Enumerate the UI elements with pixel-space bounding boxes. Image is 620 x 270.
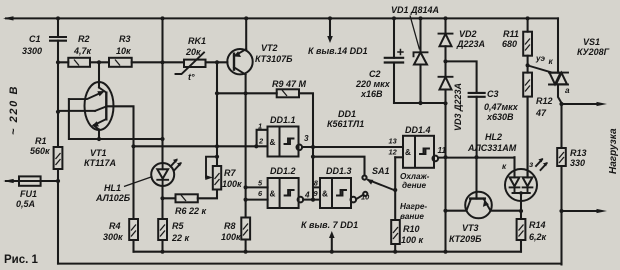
wire: VT1 right lead down to input line y=146.3 <box>106 106 258 219</box>
svg-text:а: а <box>565 86 570 95</box>
wire: C2/VD1/VD3 bottom tie y=103 <box>394 101 448 106</box>
svg-text:0,5А: 0,5А <box>16 199 35 209</box>
svg-text:HL2: HL2 <box>485 132 502 142</box>
wire: load output arrow (anode) <box>559 102 607 106</box>
wire: RK1 tap vertical x=217 <box>215 60 219 166</box>
switch SA1 <box>313 157 394 196</box>
resistor R9 <box>217 79 313 147</box>
svg-text:22 к: 22 к <box>171 233 190 243</box>
resistor R14 <box>517 211 547 252</box>
LED HL2 dual <box>467 97 548 211</box>
thermistor RK1 <box>163 36 228 82</box>
svg-text:уэ: уэ <box>535 54 546 63</box>
svg-text:R10: R10 <box>403 224 420 234</box>
gate DD1.3 <box>313 166 370 208</box>
svg-text:FU1: FU1 <box>20 189 37 199</box>
svg-text:Нагрузка: Нагрузка <box>608 128 619 174</box>
wire: figure bottom return line <box>58 263 562 265</box>
wire: load return arrow <box>559 209 607 213</box>
svg-text:10к: 10к <box>116 46 131 56</box>
svg-text:Нагре-: Нагре- <box>400 202 427 211</box>
wire: VT2 emitter vertical x=245.6 <box>244 75 248 252</box>
label Fig.1 <box>4 254 39 266</box>
svg-text:Рис. 1: Рис. 1 <box>4 254 39 266</box>
svg-text:КУ208Г: КУ208Г <box>577 47 610 57</box>
resistor R4 <box>103 219 138 252</box>
svg-text:R2: R2 <box>78 34 90 44</box>
svg-text:R4: R4 <box>109 221 121 231</box>
svg-text:3: 3 <box>304 134 309 143</box>
svg-text:SA1: SA1 <box>372 166 390 176</box>
svg-text:R12: R12 <box>536 96 553 106</box>
svg-text:&: & <box>270 138 276 147</box>
svg-text:R11: R11 <box>503 29 519 39</box>
svg-text:20к: 20к <box>185 47 201 57</box>
svg-text:К выв. 7 DD1: К выв. 7 DD1 <box>301 220 358 230</box>
svg-text:t°: t° <box>188 72 195 82</box>
svg-text:4,7к: 4,7к <box>73 46 92 56</box>
LED HL1 <box>95 159 182 204</box>
fuse FU1 with mains arrow <box>3 176 58 209</box>
node: to pin 14 of DD1 (arrow from top rail) <box>308 16 368 56</box>
svg-text:680: 680 <box>502 39 517 49</box>
svg-text:КТ209Б: КТ209Б <box>449 234 482 244</box>
wire: DD1.4 output line to HL2 <box>438 155 514 159</box>
svg-text:VD3 Д223А: VD3 Д223А <box>453 83 463 131</box>
svg-text:300к: 300к <box>103 232 123 242</box>
svg-text:АЛС331АМ: АЛС331АМ <box>467 143 517 153</box>
transistor VT3 <box>449 157 492 244</box>
resistor R3 <box>109 34 132 67</box>
label DD1 K561TL1 <box>327 109 364 129</box>
svg-text:АЛ102Б: АЛ102Б <box>95 193 131 203</box>
svg-text:47: 47 <box>535 108 547 118</box>
wire: top supply rail with left arrow <box>3 16 558 20</box>
diode VD3 <box>439 77 464 131</box>
svg-text:DD1: DD1 <box>338 109 356 119</box>
resistor R8 <box>221 218 250 243</box>
svg-text:Охлаж-: Охлаж- <box>400 172 430 181</box>
svg-text:R6 22 к: R6 22 к <box>175 206 207 216</box>
svg-text:RK1: RK1 <box>188 36 206 46</box>
transistor VT1 unijunction <box>69 82 116 168</box>
resistor R5 <box>158 219 189 252</box>
svg-text:2: 2 <box>258 137 264 146</box>
gate DD1.2 <box>246 166 313 208</box>
svg-text:330: 330 <box>570 158 585 168</box>
svg-text:13: 13 <box>389 137 398 146</box>
svg-text:х630В: х630В <box>486 112 514 122</box>
svg-text:DD1.2: DD1.2 <box>270 166 296 176</box>
svg-text:КТ3107Б: КТ3107Б <box>255 54 293 64</box>
wire: VD3 cathode vertical down x=445.5 <box>443 103 447 251</box>
svg-text:0,47мкх: 0,47мкх <box>484 102 519 112</box>
svg-text:DD1.1: DD1.1 <box>270 115 296 125</box>
svg-text:6,2к: 6,2к <box>529 232 547 242</box>
wire: VT1 base2 to divider node <box>98 62 100 87</box>
wire: bottom rail <box>134 250 522 254</box>
svg-text:R5: R5 <box>172 221 184 231</box>
wire: SA1 common / DD1.4 input / R10 vertical x=395.5 <box>393 157 397 251</box>
capacitor C1 <box>22 34 67 56</box>
svg-text:&: & <box>405 148 411 157</box>
svg-text:100 к: 100 к <box>401 235 424 245</box>
resistor R13 <box>557 104 586 265</box>
svg-text:VD1 Д814А: VD1 Д814А <box>391 5 439 15</box>
diode VD2 <box>439 16 486 76</box>
svg-text:R9 47 М: R9 47 М <box>272 79 307 89</box>
svg-text:КТ117А: КТ117А <box>84 158 116 168</box>
wire: VT3 collector to VD3 line <box>446 210 467 212</box>
resistor R12 <box>523 73 552 178</box>
svg-text:1: 1 <box>258 122 262 131</box>
gate DD1.4 <box>389 125 447 168</box>
wire: left vertical branch x=58 <box>56 16 60 263</box>
wire: VT2 collector to top rail <box>244 16 248 49</box>
wire: HL1 branch x=162.5 <box>160 16 164 219</box>
svg-text:560к: 560к <box>30 146 50 156</box>
svg-text:12: 12 <box>389 148 398 157</box>
svg-text:&: & <box>322 190 328 199</box>
svg-text:~ 220 В: ~ 220 В <box>8 85 20 135</box>
svg-text:вание: вание <box>400 212 424 221</box>
resistor R1 <box>30 136 62 169</box>
svg-text:DD1.3: DD1.3 <box>326 166 352 176</box>
resistor R2 <box>68 34 91 67</box>
svg-text:VD2: VD2 <box>459 29 477 39</box>
label ~220 V mains <box>8 85 20 135</box>
svg-text:100к: 100к <box>222 179 242 189</box>
svg-text:дение: дение <box>402 181 427 190</box>
svg-text:R13: R13 <box>570 148 587 158</box>
potentiometer R7 <box>205 157 242 190</box>
svg-text:220 мкх: 220 мкх <box>355 79 391 89</box>
svg-text:К выв.14 DD1: К выв.14 DD1 <box>308 46 368 56</box>
resistor R6 <box>163 190 218 217</box>
gate DD1.1 <box>257 115 403 157</box>
wire: DD1.1 out / DD1.3 in vertical x=314.5 <box>311 145 315 202</box>
svg-text:R14: R14 <box>529 220 546 230</box>
svg-text:100к: 100к <box>221 232 241 242</box>
svg-text:х16В: х16В <box>360 89 383 99</box>
svg-text:R7: R7 <box>224 168 236 178</box>
triac VS1 <box>528 18 610 104</box>
svg-text:3300: 3300 <box>22 46 42 56</box>
svg-text:C1: C1 <box>29 34 41 44</box>
resistor R10 <box>391 220 423 245</box>
svg-text:C3: C3 <box>487 89 499 99</box>
svg-text:R8: R8 <box>224 221 236 231</box>
svg-text:C2: C2 <box>369 69 381 79</box>
labels switch positions <box>400 172 430 221</box>
resistor R11 <box>502 16 532 72</box>
svg-text:VT2: VT2 <box>261 43 278 53</box>
capacitor C2 electrolytic <box>355 16 404 103</box>
svg-text:VT3: VT3 <box>462 223 479 233</box>
zener VD1 <box>391 5 439 103</box>
svg-text:R1: R1 <box>35 136 47 146</box>
svg-text:4: 4 <box>304 191 310 200</box>
svg-text:DD1.4: DD1.4 <box>405 125 431 135</box>
capacitor C3 <box>446 61 519 156</box>
label load (Nagruzka) <box>608 128 619 174</box>
svg-text:VS1: VS1 <box>583 37 600 47</box>
svg-text:К561ТЛ1: К561ТЛ1 <box>327 119 364 129</box>
svg-text:&: & <box>270 190 276 199</box>
svg-text:HL1: HL1 <box>104 183 121 193</box>
wire: VT3 emitter to HL2/R14 node <box>491 209 524 213</box>
wire: R2-R3 divider rail y=62 <box>58 60 163 64</box>
svg-text:R3: R3 <box>119 34 131 44</box>
transistor VT2 <box>227 43 293 75</box>
wire: VT1 emitter loop and base1 rail y=139 <box>58 99 165 141</box>
node: to pin 7 of DD1 (arrow from bottom rail) <box>301 220 358 252</box>
svg-text:VT1: VT1 <box>90 148 107 158</box>
svg-text:Д223А: Д223А <box>456 39 485 49</box>
